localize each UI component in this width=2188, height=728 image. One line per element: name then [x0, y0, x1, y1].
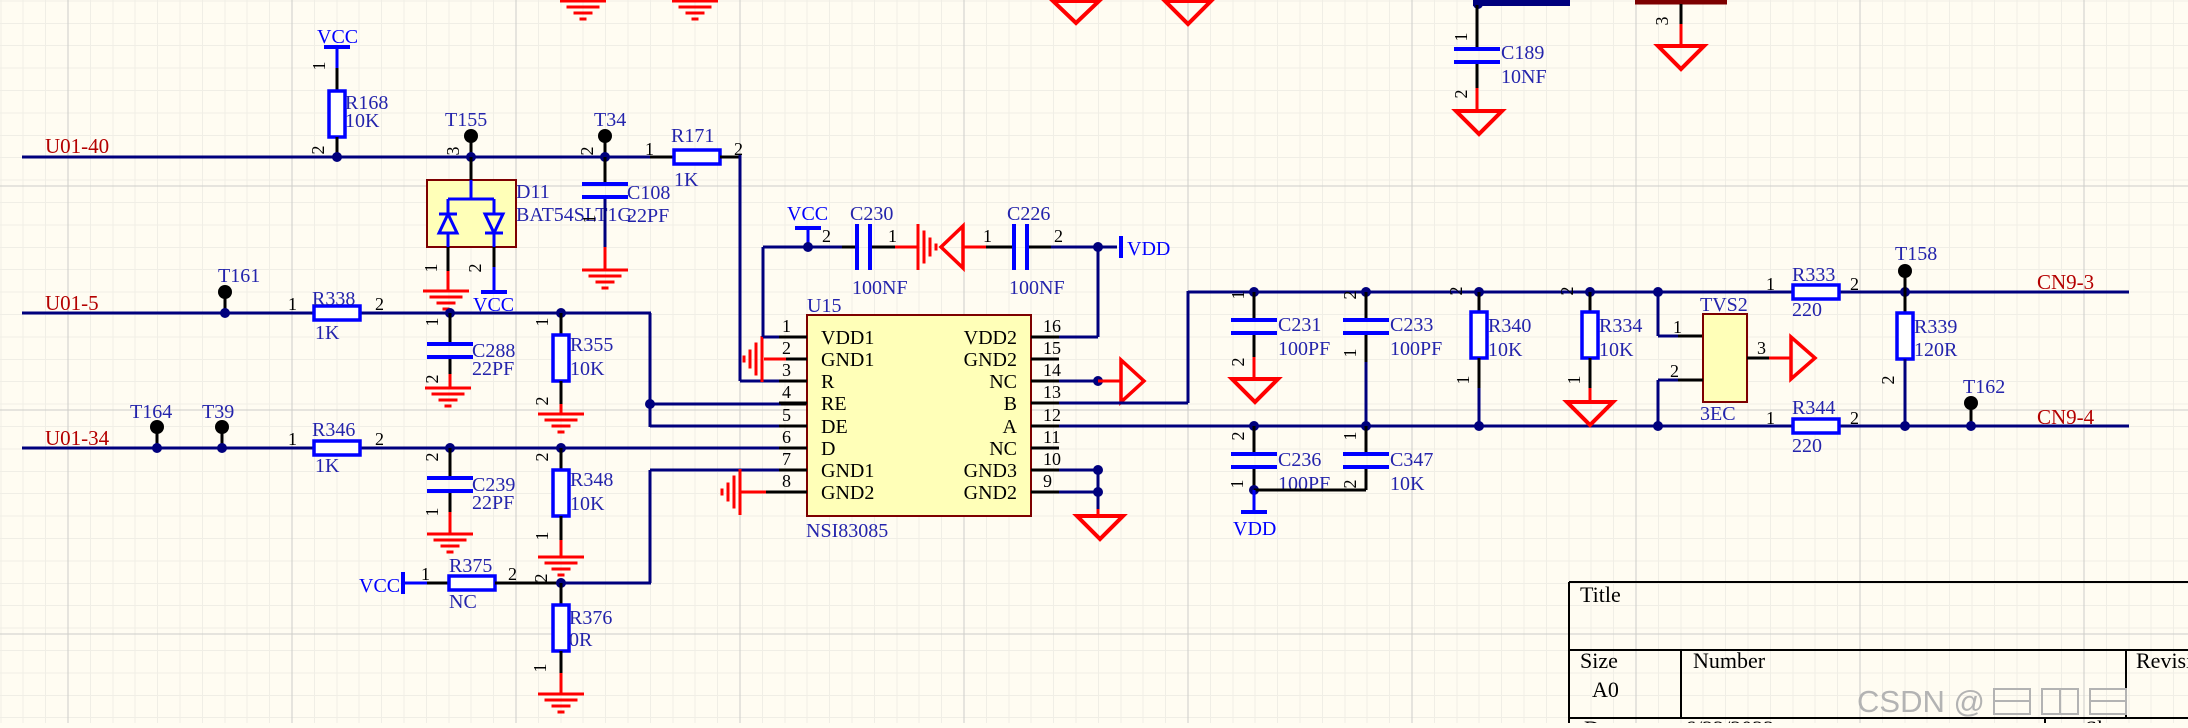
IC U15 body [807, 315, 1031, 516]
junction [1585, 287, 1595, 297]
wire [1769, 357, 1791, 360]
wire [1589, 388, 1592, 402]
wire [1365, 362, 1368, 426]
svg-text:1: 1 [421, 564, 430, 584]
svg-text:Date: Date [1584, 716, 1626, 723]
svg-text:1: 1 [1340, 349, 1360, 358]
ground (cut) top-left B [672, 1, 718, 19]
svg-text:1: 1 [530, 664, 550, 673]
wire [560, 313, 563, 335]
diode symbols D11 [439, 180, 503, 247]
svg-text:22PF: 22PF [627, 205, 669, 227]
svg-text:1: 1 [288, 294, 297, 314]
pin stub [1031, 402, 1059, 405]
wire [560, 404, 563, 414]
svg-text:R344: R344 [1792, 397, 1835, 419]
resistor R339 [1897, 313, 1913, 359]
svg-text:2: 2 [822, 226, 831, 246]
svg-text:11: 11 [1043, 427, 1060, 447]
svg-text:1K: 1K [315, 455, 340, 477]
pin stub [1031, 491, 1059, 494]
wire [449, 493, 452, 512]
svg-text:T164: T164 [130, 401, 172, 423]
svg-text:VDD2: VDD2 [964, 327, 1017, 349]
watermark glyphs [1994, 689, 2126, 714]
net U01-5 wire [22, 312, 651, 315]
svg-text:6/22/2022: 6/22/2022 [1685, 716, 1774, 723]
svg-text:10K: 10K [570, 358, 605, 380]
svg-text:R376: R376 [569, 607, 612, 629]
svg-text:VCC: VCC [359, 575, 400, 597]
wire [1253, 335, 1256, 357]
svg-text:R348: R348 [570, 469, 613, 491]
junction [1474, 421, 1484, 431]
svg-text:2: 2 [531, 574, 551, 583]
svg-text:CSDN @: CSDN @ [1857, 684, 1985, 719]
wire pin4 [781, 403, 808, 406]
wire [1098, 380, 1121, 383]
wire [560, 673, 563, 694]
svg-text:Sheet: Sheet [2085, 716, 2134, 723]
power triangle pin14 [1121, 360, 1144, 402]
net U01-34 wire [22, 447, 781, 450]
wire [720, 156, 741, 159]
svg-text:7: 7 [782, 449, 791, 469]
resistor R346 [314, 441, 360, 455]
svg-text:2: 2 [1228, 432, 1248, 441]
wire [1365, 426, 1368, 454]
svg-text:2: 2 [577, 147, 597, 156]
wire [1904, 359, 1907, 426]
wire [470, 157, 473, 181]
svg-text:1: 1 [888, 226, 897, 246]
capacitor C108 [582, 182, 628, 186]
wire [1476, 64, 1479, 88]
svg-text:8: 8 [782, 471, 791, 491]
pin stub [779, 358, 807, 361]
capacitor C189 [1454, 47, 1500, 51]
capacitor C347 [1343, 452, 1389, 456]
wire [1658, 379, 1678, 382]
power triangle mid [941, 226, 963, 268]
junction [445, 443, 455, 453]
capacitor C226 [1012, 224, 1016, 270]
svg-text:2: 2 [1670, 361, 1679, 381]
junction [1093, 465, 1103, 475]
wire [560, 583, 563, 605]
svg-text:1: 1 [1564, 376, 1584, 385]
svg-text:T161: T161 [218, 265, 260, 287]
wire [449, 448, 452, 478]
pin stub [1031, 469, 1059, 472]
svg-text:VDD: VDD [1127, 238, 1170, 260]
svg-text:Revisi: Revisi [2136, 648, 2188, 673]
svg-text:10K: 10K [570, 493, 605, 515]
svg-text:2: 2 [1850, 408, 1859, 428]
svg-text:2: 2 [1878, 376, 1898, 385]
svg-text:R: R [821, 371, 835, 393]
svg-text:2: 2 [532, 453, 552, 462]
ground C239 [427, 534, 473, 552]
capacitor C230 [855, 224, 859, 270]
svg-text:T39: T39 [202, 401, 234, 423]
net CN9-4 wire A [1059, 425, 2129, 428]
wire pin9 [1059, 491, 1098, 494]
wire [895, 246, 918, 249]
svg-text:120R: 120R [1914, 339, 1958, 361]
resistor R333 [1793, 285, 1839, 299]
svg-text:C233: C233 [1390, 314, 1433, 336]
wire [1365, 292, 1368, 320]
wire [650, 156, 674, 159]
wire [1365, 469, 1368, 490]
ground mid [918, 224, 936, 270]
svg-text:10: 10 [1043, 449, 1061, 469]
svg-text:U01-40: U01-40 [45, 134, 109, 158]
wire [1478, 358, 1481, 388]
junction [1473, 0, 1483, 9]
ground triangle (cut) top C [1053, 1, 1099, 23]
ground R355 [538, 414, 584, 432]
svg-text:A: A [1003, 416, 1018, 438]
svg-text:2: 2 [1340, 291, 1360, 300]
junction [152, 443, 162, 453]
svg-text:R355: R355 [570, 334, 613, 356]
svg-text:T158: T158 [1895, 243, 1937, 265]
svg-text:2: 2 [532, 397, 552, 406]
wire [1589, 358, 1592, 388]
svg-text:2: 2 [1446, 287, 1466, 296]
ground U15 pin8 [766, 491, 807, 494]
junction [1653, 287, 1663, 297]
svg-text:NC: NC [449, 591, 477, 613]
svg-text:2: 2 [1557, 287, 1577, 296]
svg-text:C236: C236 [1278, 449, 1321, 471]
wire pin7 [650, 469, 781, 472]
svg-text:1: 1 [1453, 376, 1473, 385]
svg-text:VCC: VCC [787, 203, 828, 225]
svg-text:1: 1 [1766, 274, 1775, 294]
capacitor C288 [427, 342, 473, 346]
junction [1474, 287, 1484, 297]
wire [739, 155, 742, 381]
svg-text:VDD: VDD [1233, 518, 1276, 540]
resistor R344 [1793, 419, 1839, 433]
wire [449, 313, 452, 344]
wire pin5 [781, 425, 808, 428]
wire [336, 137, 339, 157]
svg-text:Number: Number [1693, 648, 1766, 673]
wire [872, 246, 895, 249]
svg-text:2: 2 [1340, 480, 1360, 489]
svg-text:R340: R340 [1488, 315, 1531, 337]
svg-text:U01-34: U01-34 [45, 426, 110, 450]
ground triangle [1658, 46, 1704, 69]
svg-text:GND2: GND2 [964, 349, 1017, 371]
junction [220, 308, 230, 318]
wire [604, 199, 607, 247]
svg-text:100PF: 100PF [1278, 338, 1330, 360]
wire bus top [1473, 0, 1570, 6]
ground triangle C189 [1456, 111, 1502, 134]
svg-text:9: 9 [1043, 471, 1052, 491]
wire [560, 381, 563, 404]
svg-text:1: 1 [1451, 33, 1471, 42]
wire [560, 540, 563, 557]
junction [1093, 487, 1103, 497]
capacitor C239 [427, 476, 473, 480]
svg-text:Size: Size [1580, 648, 1618, 673]
svg-text:100PF: 100PF [1278, 473, 1330, 495]
svg-text:R338: R338 [312, 288, 355, 310]
junction [1653, 421, 1663, 431]
svg-text:C231: C231 [1278, 314, 1321, 336]
svg-text:1: 1 [1766, 408, 1775, 428]
wire [1097, 509, 1100, 516]
svg-text:1: 1 [1227, 480, 1247, 489]
svg-text:R333: R333 [1792, 264, 1835, 286]
wire [740, 380, 781, 383]
svg-text:1: 1 [1673, 317, 1682, 337]
svg-text:1: 1 [1340, 432, 1360, 441]
svg-text:2: 2 [1054, 226, 1063, 246]
pin stub [1031, 447, 1059, 450]
svg-text:U01-5: U01-5 [45, 291, 99, 315]
wire [649, 313, 652, 427]
resistor R338 [314, 306, 360, 320]
svg-text:2: 2 [422, 375, 442, 384]
wire [781, 380, 808, 383]
svg-text:DE: DE [821, 416, 848, 438]
svg-text:220: 220 [1792, 435, 1822, 457]
svg-text:R171: R171 [671, 125, 714, 147]
svg-text:CN9-4: CN9-4 [2037, 405, 2095, 429]
svg-text:10K: 10K [1390, 473, 1425, 495]
junction [1361, 421, 1371, 431]
svg-text:1K: 1K [674, 169, 699, 191]
junction [1249, 485, 1259, 495]
junction [600, 152, 610, 162]
wire [1253, 426, 1256, 454]
wire [763, 336, 779, 339]
svg-text:3EC: 3EC [1700, 403, 1736, 425]
ground triangle R334 [1567, 402, 1613, 425]
power triangle TVS2 [1791, 337, 1815, 379]
svg-text:T155: T155 [445, 109, 487, 131]
wire [560, 448, 563, 470]
svg-text:2: 2 [782, 338, 791, 358]
wire [1657, 380, 1660, 426]
svg-text:C189: C189 [1501, 42, 1544, 64]
wire [963, 246, 986, 249]
wire [1029, 246, 1051, 249]
svg-text:GND3: GND3 [964, 460, 1017, 482]
svg-text:2: 2 [375, 429, 384, 449]
svg-text:2: 2 [422, 453, 442, 462]
svg-text:BAT54SLT1G: BAT54SLT1G [516, 204, 632, 226]
svg-text:D11: D11 [516, 181, 550, 203]
wire [447, 247, 450, 271]
svg-text:3: 3 [1757, 338, 1766, 358]
svg-text:C230: C230 [850, 203, 893, 225]
junction [332, 152, 342, 162]
svg-text:100NF: 100NF [852, 277, 908, 299]
svg-text:2: 2 [308, 146, 328, 155]
wire [1904, 292, 1907, 313]
svg-text:2: 2 [1228, 358, 1248, 367]
pin stub [1031, 380, 1059, 383]
svg-text:GND1: GND1 [821, 460, 874, 482]
wire [1187, 291, 1190, 403]
connector edge (cut) [1635, 0, 1727, 5]
svg-text:1: 1 [532, 318, 552, 327]
pin stub [1031, 425, 1059, 428]
svg-text:A0: A0 [1592, 677, 1619, 702]
svg-text:1: 1 [422, 508, 442, 517]
svg-text:2: 2 [465, 264, 485, 273]
svg-text:1: 1 [421, 264, 441, 273]
svg-text:13: 13 [1043, 382, 1061, 402]
wire [1478, 388, 1481, 426]
svg-text:3: 3 [443, 147, 463, 156]
wire pin13 B [1059, 402, 1188, 405]
wire [763, 246, 842, 249]
svg-text:1: 1 [288, 429, 297, 449]
ground triangle U15 [1077, 516, 1123, 539]
svg-text:12: 12 [1043, 405, 1061, 425]
svg-text:1K: 1K [315, 322, 340, 344]
junction [556, 308, 566, 318]
ground U15 pin2 [764, 358, 786, 361]
wire [561, 582, 651, 585]
junction [1361, 287, 1371, 297]
svg-text:6: 6 [782, 427, 791, 447]
resistor R171 [674, 150, 720, 164]
junction [466, 152, 476, 162]
wire [1747, 357, 1769, 360]
svg-text:CN9-3: CN9-3 [2037, 270, 2094, 294]
wire [336, 68, 339, 91]
wire pin10 [1059, 469, 1098, 472]
wire [650, 403, 781, 406]
ground (cut) top-left A [560, 1, 606, 19]
svg-text:2: 2 [375, 294, 384, 314]
wire [449, 359, 452, 374]
svg-text:2: 2 [1850, 274, 1859, 294]
svg-text:R375: R375 [449, 555, 492, 577]
wire [493, 247, 496, 267]
wire [1678, 379, 1703, 382]
junction [556, 578, 566, 588]
svg-text:NC: NC [989, 371, 1017, 393]
svg-text:5: 5 [782, 405, 791, 425]
net U01-40 wire [22, 156, 650, 159]
resistor R376 [553, 605, 569, 651]
junction [1249, 421, 1259, 431]
svg-text:U15: U15 [807, 295, 841, 317]
svg-text:VCC: VCC [317, 26, 358, 48]
ground R348 [538, 557, 584, 575]
wire [1680, 4, 1683, 24]
wire [1253, 292, 1256, 320]
svg-text:R346: R346 [312, 419, 355, 441]
pin stub [779, 447, 807, 450]
svg-text:2: 2 [1451, 90, 1471, 99]
diode D11 [427, 180, 516, 247]
wire [1678, 335, 1703, 338]
wire pin16 [1059, 336, 1098, 339]
wire [427, 582, 449, 585]
wire [1476, 88, 1479, 111]
wire [495, 582, 561, 585]
junction [556, 443, 566, 453]
svg-text:1: 1 [422, 318, 442, 327]
wire [1253, 469, 1256, 490]
pin stub [779, 425, 807, 428]
svg-text:GND2: GND2 [964, 482, 1017, 504]
svg-text:1: 1 [309, 62, 329, 71]
junction [1900, 287, 1910, 297]
wire [1254, 489, 1366, 492]
net CN9-3 wire [1188, 291, 2129, 294]
svg-text:NSI83085: NSI83085 [806, 520, 888, 542]
wire [560, 651, 563, 673]
resistor R168 [329, 91, 345, 137]
svg-text:3: 3 [782, 360, 791, 380]
junction [1966, 421, 1976, 431]
wire [1365, 335, 1368, 362]
ground C288 [425, 388, 471, 406]
svg-text:10K: 10K [1488, 339, 1523, 361]
wire [447, 271, 450, 291]
resistor R334 [1582, 312, 1598, 358]
svg-text:10K: 10K [1599, 339, 1634, 361]
wire [1097, 470, 1100, 509]
wire [604, 157, 607, 184]
wire [604, 247, 607, 270]
svg-text:R339: R339 [1914, 316, 1957, 338]
wire [1051, 246, 1117, 249]
wire [449, 512, 452, 534]
title block frame [1569, 582, 2188, 723]
svg-text:C347: C347 [1390, 449, 1433, 471]
ground R376 [538, 694, 584, 712]
svg-text:VDD1: VDD1 [821, 327, 874, 349]
wire [1589, 292, 1592, 312]
wire [1657, 292, 1660, 336]
wire pin14 [1059, 380, 1098, 383]
svg-text:T34: T34 [594, 109, 626, 131]
TVS2 body [1703, 314, 1747, 402]
pin stub [779, 402, 807, 405]
pin stub [1031, 358, 1059, 361]
svg-text:100NF: 100NF [1009, 277, 1065, 299]
svg-text:GND1: GND1 [821, 349, 874, 371]
svg-text:0R: 0R [569, 629, 593, 651]
svg-text:RE: RE [821, 393, 847, 415]
wire [560, 516, 563, 540]
power VDD [1119, 236, 1123, 258]
svg-text:R334: R334 [1599, 315, 1642, 337]
ground triangle C231 [1232, 379, 1278, 402]
pin stub [1031, 336, 1059, 339]
wire [842, 246, 857, 249]
svg-text:22PF: 22PF [472, 358, 514, 380]
wire [1097, 247, 1100, 337]
svg-text:1: 1 [1228, 291, 1248, 300]
pin stub [779, 469, 807, 472]
junction [1093, 376, 1103, 386]
